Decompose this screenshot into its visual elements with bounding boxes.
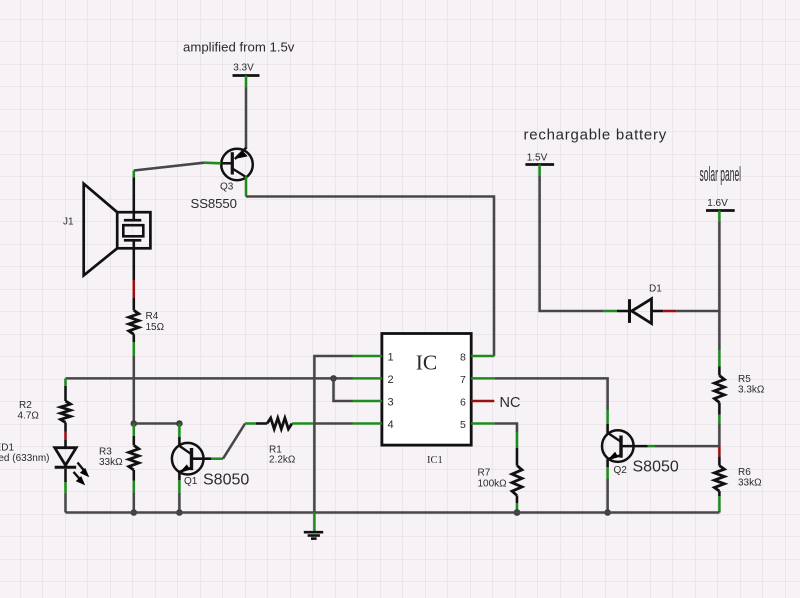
svg-text:3: 3 [388,397,394,409]
speaker J1 pin 1 (top) [133,171,136,178]
junction node Q1 emitter/ground rail [176,509,183,516]
speaker J1 pin 2 (bottom) wire [133,248,136,280]
pin 1 [353,355,382,358]
wire pin 5 to R7 [494,424,517,433]
pin 2 [353,377,382,380]
wire pin 7 to Q2 collector [494,378,607,410]
svg-text:NC: NC [500,395,521,411]
svg-text:4: 4 [388,419,394,431]
svg-text:5: 5 [460,419,466,431]
resistor R4 [129,310,139,334]
wire ground rail (bottom bus) [66,511,720,514]
power flag 1.5V [525,153,554,177]
wire Q2 emitter to ground rail [606,479,609,513]
svg-text:8: 8 [460,352,466,364]
svg-text:S8050: S8050 [203,472,249,489]
wire segment (red) R2 to LED1 [64,423,67,432]
junction node R7/ground rail [514,509,521,516]
wire solar panel down to R5 [718,222,721,350]
R4 bottom pin [133,334,136,342]
svg-text:red (633nm): red (633nm) [0,453,50,464]
pin 8 [471,355,494,358]
svg-text:1: 1 [388,352,394,364]
wire D1 to solar panel net [677,310,720,313]
svg-text:2.2kΩ: 2.2kΩ [269,455,296,466]
svg-text:3.3V: 3.3V [233,63,254,74]
svg-text:33kΩ: 33kΩ [99,457,123,468]
diode D1 [604,299,677,324]
svg-text:R3: R3 [99,447,112,458]
svg-text:IC1: IC1 [427,455,443,466]
svg-text:6: 6 [460,397,466,409]
svg-text:Q1: Q1 [184,476,198,487]
svg-text:R2: R2 [19,400,32,411]
op-amp IC U1 body [382,334,471,446]
pin 6 (NC, red) [471,400,494,403]
resistor R6 [718,457,721,466]
resistor R3 [133,424,136,437]
svg-text:1.5V: 1.5V [527,153,548,164]
power flag 3.3V [233,63,260,88]
svg-text:J1: J1 [63,217,74,228]
svg-text:S8050: S8050 [633,459,679,476]
wire Q2 base to R5/R6 node [655,445,719,448]
wire Q1 emitter to ground rail [178,493,181,513]
wire net pin2 row [66,377,353,380]
svg-text:R5: R5 [738,374,751,385]
wire LED1 to ground rail corner [64,494,67,513]
svg-text:1.6V: 1.6V [707,198,728,209]
pin 3 [353,400,382,403]
LED1 bottom pin [64,469,67,482]
svg-text:R7: R7 [478,468,491,479]
transistor Q3 SS8550 (PNP) [204,148,253,197]
wire segment (red) speaker to R4 [133,280,136,298]
svg-text:R6: R6 [738,467,751,478]
wire 1.5V down to diode D1 [540,176,604,311]
LED LED1 [55,448,90,486]
svg-text:rechargable battery: rechargable battery [524,127,668,144]
wire IC pin1 to ground rail [314,356,352,513]
wire Q3 collector to IC pin 8 [246,197,494,357]
svg-text:D1: D1 [649,284,662,295]
transistor Q1 S8050 (NPN) [172,424,223,494]
wire Q3 base to speaker J1 top [134,163,204,171]
svg-text:100kΩ: 100kΩ [478,479,508,490]
wire R5 to R6 node [718,424,721,447]
junction node R3 top [131,420,138,427]
wire corner pin2 row to R2 [64,378,67,386]
svg-text:33kΩ: 33kΩ [738,478,762,489]
wire node to pin 3 [334,378,353,401]
resistor R7 [516,432,519,448]
svg-text:2: 2 [388,374,394,386]
resistor R1 [245,422,256,425]
speaker J1 body [84,184,151,276]
svg-text:solar panel: solar panel [700,164,742,186]
pin 4 [353,422,382,425]
junction node pin2/pin3 [330,375,337,382]
wire R4 to node at R3 top [133,356,136,424]
svg-text:7: 7 [460,374,466,386]
svg-text:Q3: Q3 [220,182,234,193]
wire R3 node to Q1 collector node [134,422,180,425]
wire Q1 base to R1 [223,424,245,459]
resistor R5 [718,350,721,367]
svg-text:SS8550: SS8550 [191,196,237,211]
pin 7 [471,377,494,380]
wire 3.3V to Q3 emitter [245,88,248,150]
ground symbol [304,513,323,539]
wire R1 to IC pin 4 [313,422,353,425]
svg-text:15Ω: 15Ω [146,322,165,333]
pin 5 [471,422,494,425]
junction node Q1 collector [176,420,183,427]
svg-text:3.3kΩ: 3.3kΩ [738,385,765,396]
svg-text:Q2: Q2 [614,465,628,476]
resistor R2 [61,401,71,423]
junction node R3 bottom [131,509,138,516]
wire segment (red) node to R6 [718,446,721,457]
svg-text:4.7Ω: 4.7Ω [18,411,40,422]
transistor Q2 S8050 (NPN) [602,410,655,479]
svg-text:amplified from 1.5v: amplified from 1.5v [183,40,295,55]
svg-text:IC: IC [416,351,438,375]
svg-text:LED1: LED1 [0,443,14,454]
power flag 1.6V [706,198,735,222]
junction node Q2 emitter/ground rail [604,509,611,516]
svg-text:R4: R4 [146,311,159,322]
